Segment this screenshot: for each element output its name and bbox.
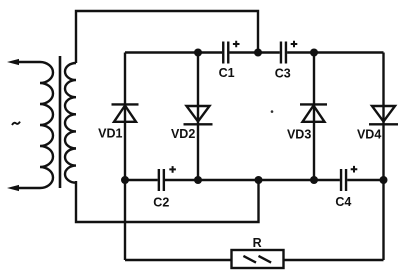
svg-text:C1: C1 (219, 66, 235, 80)
svg-text:R: R (253, 236, 262, 250)
svg-text:C2: C2 (153, 196, 169, 210)
svg-text:C4: C4 (335, 195, 351, 209)
svg-text:VD2: VD2 (171, 127, 195, 141)
svg-text:VD3: VD3 (287, 127, 311, 141)
svg-text:VD4: VD4 (357, 128, 381, 142)
svg-text:C3: C3 (275, 66, 291, 80)
svg-text:VD1: VD1 (98, 126, 122, 140)
